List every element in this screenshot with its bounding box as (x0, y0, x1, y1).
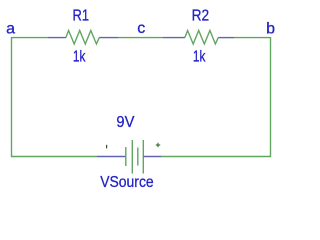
svg-text:9V: 9V (116, 114, 134, 131)
svg-text:c: c (137, 20, 145, 37)
VSource plate 1 short (negative) (125, 147, 127, 166)
R2 right pin (218, 37, 234, 39)
wire right vertical b down (270, 37, 272, 157)
wire R2 to b (top right) (234, 37, 271, 39)
R1 zigzag body (66, 31, 99, 45)
R1 right pin (99, 37, 118, 39)
svg-text:R2: R2 (192, 8, 210, 25)
svg-text:a: a (6, 20, 15, 37)
wire battery to bottom right (161, 156, 271, 158)
resistor R1 (48, 31, 118, 45)
wire a to R1 (top left) (11, 37, 48, 39)
VSource plate 4 long (positive) (142, 140, 144, 174)
R1 left pin (48, 37, 66, 39)
VSource plate 2 long (131, 140, 133, 174)
resistor R2 (163, 31, 234, 45)
R2 zigzag body (185, 31, 218, 45)
wire R1 to R2 through c (top middle) (118, 37, 163, 39)
wire left vertical a down (11, 37, 13, 157)
VSource left pin (97, 156, 126, 158)
VSource right pin (143, 156, 161, 158)
minus mark (106, 145, 107, 149)
plus mark (156, 143, 160, 147)
battery VSource (97, 140, 161, 174)
VSource plate 3 short (137, 148, 139, 166)
svg-text:b: b (266, 20, 275, 37)
R2 left pin (163, 37, 185, 39)
svg-text:1k: 1k (73, 49, 86, 66)
svg-text:R1: R1 (73, 8, 90, 25)
svg-text:VSource: VSource (100, 174, 154, 191)
svg-text:1k: 1k (193, 49, 206, 66)
wire bottom left to battery (11, 156, 97, 158)
